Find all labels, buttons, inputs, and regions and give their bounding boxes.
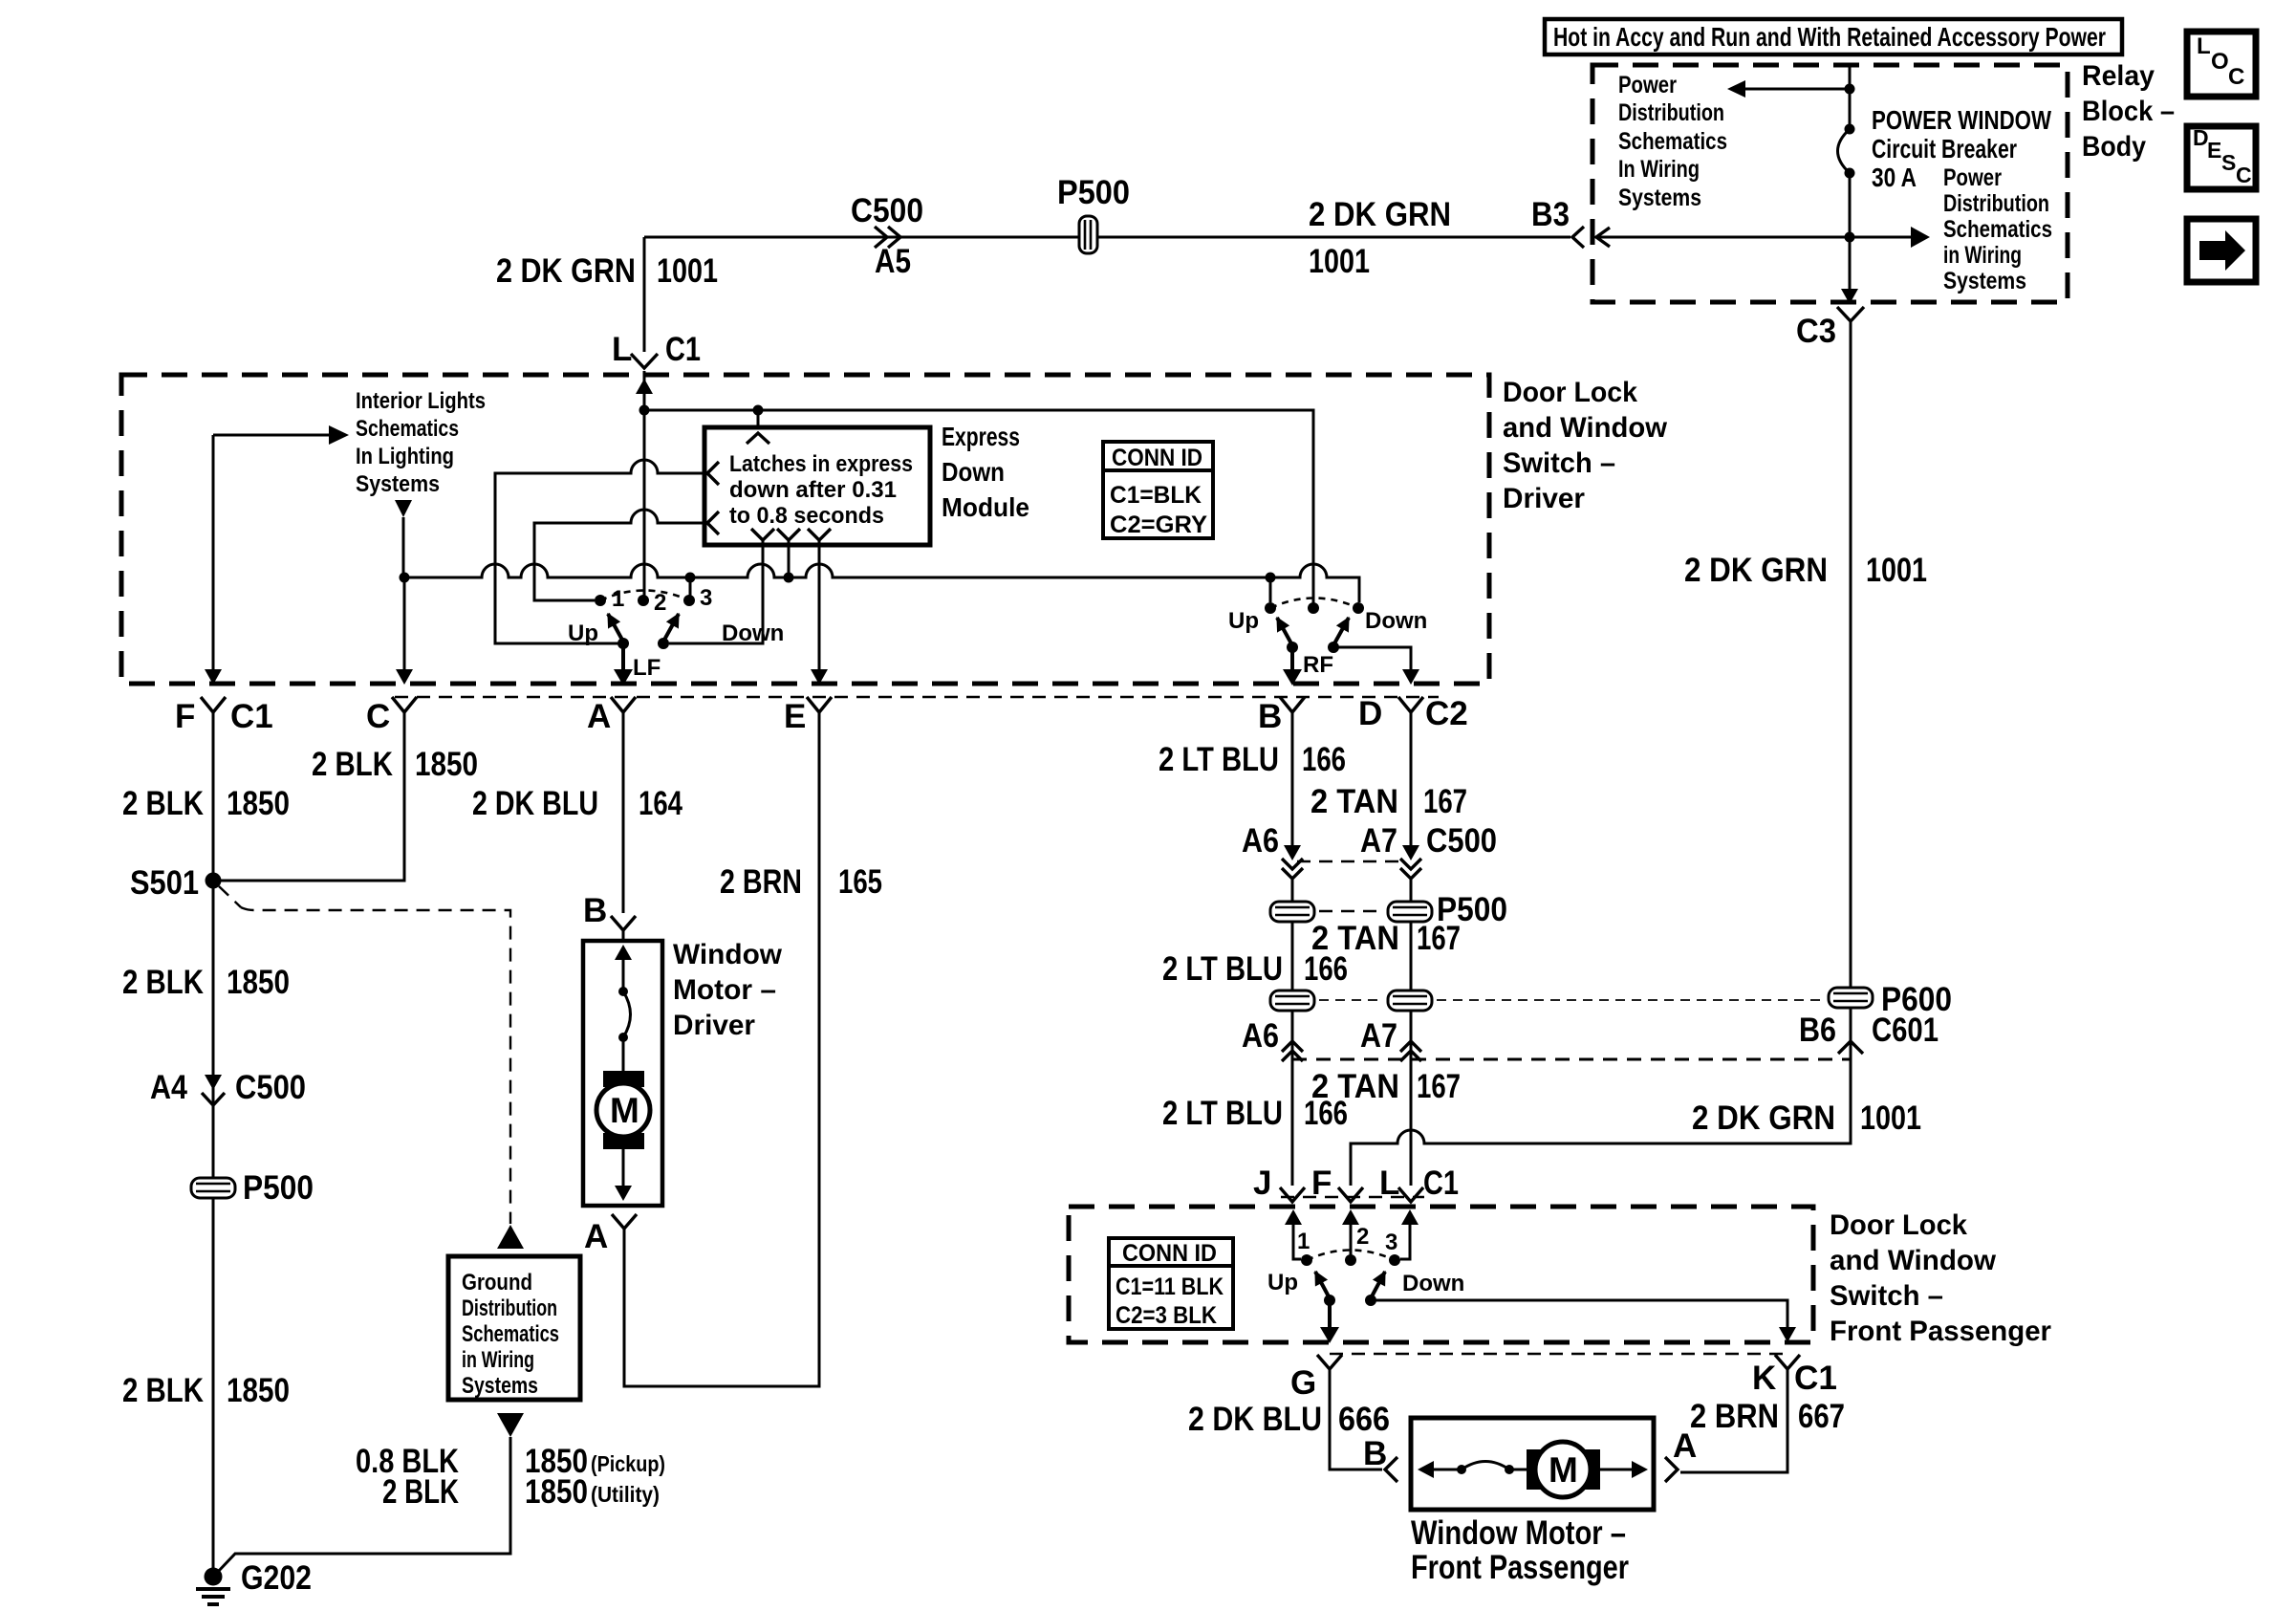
- passenger down actuator arrow: [1371, 1272, 1385, 1298]
- wire: module pin1 down to LF down-pivot: [669, 540, 763, 643]
- svg-text:A5: A5: [875, 243, 911, 280]
- relay block - body dashed box: [1592, 65, 2068, 302]
- passenger up pivot: [1324, 1295, 1335, 1306]
- svg-text:down after 0.31: down after 0.31: [729, 477, 897, 503]
- svg-text:Distribution: Distribution: [1618, 99, 1724, 126]
- C601 connector body dashed line: [1292, 1058, 1851, 1061]
- svg-text:C500: C500: [235, 1069, 306, 1106]
- motor thermal switch arc: [623, 991, 631, 1037]
- wire: up pivot down to G with arrow: [1328, 1300, 1332, 1327]
- svg-text:Distribution: Distribution: [1943, 190, 2049, 217]
- C601 grommet (J line): [1270, 991, 1314, 1011]
- svg-text:LF: LF: [633, 655, 661, 681]
- A6 inline connector arrow+chevrons: [1284, 845, 1301, 860]
- svg-text:2 DK GRN: 2 DK GRN: [1692, 1099, 1835, 1137]
- motor A chevron: [612, 1214, 637, 1229]
- svg-text:Systems: Systems: [356, 471, 440, 497]
- svg-text:L: L: [2197, 33, 2211, 59]
- L chevron (passenger): [1398, 1187, 1423, 1202]
- door lock and window switch - driver dashed box: [121, 375, 1489, 684]
- svg-text:B: B: [1258, 698, 1282, 735]
- CONN ID table (passenger): [1109, 1238, 1233, 1329]
- svg-text:C500: C500: [851, 192, 923, 229]
- svg-text:(Pickup): (Pickup): [591, 1451, 665, 1476]
- svg-text:1850: 1850: [525, 1473, 588, 1511]
- svg-text:In Wiring: In Wiring: [1618, 156, 1700, 183]
- svg-text:1: 1: [1297, 1229, 1310, 1254]
- RF up actuator arrow: [1277, 618, 1292, 645]
- svg-text:Block –: Block –: [2082, 96, 2175, 127]
- dashed branch from S501 to ground distribution: [219, 886, 241, 907]
- svg-text:2: 2: [1356, 1224, 1369, 1250]
- wire: K down and left to motor A: [1680, 1368, 1787, 1472]
- svg-text:in Wiring: in Wiring: [462, 1347, 534, 1373]
- svg-text:2 LT BLU: 2 LT BLU: [1162, 1095, 1283, 1132]
- svg-text:666: 666: [1338, 1401, 1390, 1438]
- LF dashed contact arc: [600, 591, 689, 601]
- P500 grommet on top wire: [1079, 216, 1097, 253]
- F chevron (passenger): [1338, 1187, 1363, 1202]
- svg-text:B: B: [1363, 1435, 1387, 1472]
- wire: module pin2 to LF contact1 (humps over center): [534, 510, 707, 600]
- svg-text:2 DK GRN: 2 DK GRN: [1684, 552, 1828, 589]
- svg-text:Hot in Accy and Run and With R: Hot in Accy and Run and With Retained Ac…: [1553, 22, 2106, 52]
- G chevron: [1317, 1355, 1342, 1369]
- P500 grommet on ground run: [191, 1178, 235, 1198]
- svg-text:2 BRN: 2 BRN: [1690, 1398, 1779, 1435]
- svg-text:Interior Lights: Interior Lights: [356, 388, 486, 414]
- wire: module pin2 down to bus: [788, 540, 791, 577]
- C601 grommet (L line): [1388, 991, 1432, 1011]
- svg-text:B6: B6: [1799, 1012, 1836, 1049]
- svg-text:Systems: Systems: [462, 1373, 538, 1399]
- svg-text:C1: C1: [230, 698, 273, 735]
- svg-text:Relay: Relay: [2082, 60, 2155, 92]
- svg-text:Power: Power: [1618, 72, 1677, 98]
- RF switch center feed contact 2: [1308, 602, 1319, 614]
- svg-text:C: C: [366, 698, 390, 735]
- J chevron: [1280, 1187, 1305, 1202]
- svg-text:2 LT BLU: 2 LT BLU: [1162, 950, 1283, 988]
- svg-text:Driver: Driver: [1503, 483, 1585, 514]
- svg-text:C1: C1: [1794, 1360, 1837, 1397]
- svg-text:and Window: and Window: [1830, 1245, 1997, 1276]
- svg-text:Switch –: Switch –: [1830, 1280, 1943, 1312]
- svg-text:S501: S501: [130, 864, 199, 902]
- B3 chevron: [1572, 227, 1584, 248]
- module top pin chevron: [747, 433, 769, 444]
- node at horizontal bus: [1845, 232, 1855, 243]
- wire: F pin ground run down to G202: [212, 709, 215, 1577]
- CONN ID table (driver): [1103, 442, 1213, 538]
- LF up actuator arrow: [608, 614, 623, 642]
- P600 grommet (right feed): [1829, 988, 1873, 1008]
- wire: E pin down, across, up to motor A: [624, 709, 819, 1386]
- motor A chevron (passenger): [1665, 1457, 1678, 1482]
- wire: B pin down to A6 connector: [1291, 709, 1294, 857]
- passenger pin 2 entry arrow: [1350, 1224, 1353, 1258]
- interior lights feed wire with right arrow: [213, 434, 329, 437]
- svg-text:1001: 1001: [1309, 243, 1370, 280]
- svg-text:F: F: [175, 698, 195, 735]
- svg-text:B3: B3: [1531, 196, 1570, 233]
- A chevron: [611, 697, 636, 712]
- wire: module pin3 down to E pin: [818, 540, 821, 669]
- hot-in-accy banner box: [1545, 19, 2122, 54]
- svg-text:C1=BLK: C1=BLK: [1110, 482, 1202, 509]
- svg-text:Systems: Systems: [1943, 268, 2026, 294]
- wire: node down to C3 with arrow: [1849, 237, 1852, 289]
- svg-text:B: B: [583, 892, 607, 929]
- passenger contact 1: [1301, 1254, 1312, 1266]
- svg-text:Systems: Systems: [1618, 185, 1701, 211]
- ground distribution schematics box: [448, 1256, 580, 1400]
- svg-text:Up: Up: [1267, 1270, 1298, 1295]
- C chevron: [392, 697, 417, 712]
- D chevron: [1398, 697, 1423, 712]
- wire: F pin riser: [212, 435, 215, 669]
- wire: D pin down to A7 connector: [1410, 709, 1413, 857]
- wire to motor M: [622, 1037, 625, 1073]
- RF down pivot: [1328, 642, 1339, 653]
- circuit breaker CB 30A: [1845, 124, 1855, 135]
- passenger contact 3: [1389, 1254, 1400, 1266]
- A7 inline connector arrow+chevrons: [1402, 845, 1419, 860]
- svg-text:Front Passenger: Front Passenger: [1411, 1549, 1629, 1586]
- svg-text:C2: C2: [1425, 695, 1468, 732]
- svg-text:30 A: 30 A: [1872, 163, 1917, 192]
- C500 connector dashed line: [1297, 860, 1405, 862]
- svg-text:L: L: [612, 331, 632, 368]
- svg-text:C601: C601: [1872, 1012, 1939, 1049]
- svg-text:D: D: [1358, 695, 1382, 732]
- P500 grommet (L line): [1388, 902, 1432, 922]
- svg-text:P500: P500: [1057, 174, 1130, 211]
- svg-text:2 BRN: 2 BRN: [720, 863, 802, 901]
- svg-text:1850: 1850: [227, 1372, 290, 1409]
- svg-text:CONN ID: CONN ID: [1112, 445, 1202, 471]
- svg-text:C500: C500: [1426, 822, 1497, 860]
- wire from M with right arrow: [1600, 1469, 1633, 1471]
- svg-text:2 BLK: 2 BLK: [382, 1473, 459, 1511]
- svg-text:1001: 1001: [1866, 552, 1927, 589]
- svg-text:A: A: [584, 1218, 608, 1255]
- wire from M down with arrow: [622, 1146, 625, 1186]
- C3 chevron (male half): [1837, 307, 1864, 321]
- svg-text:Up: Up: [568, 620, 598, 646]
- svg-text:167: 167: [1417, 1068, 1461, 1105]
- node above express module: [753, 405, 764, 416]
- passenger pin 3 entry arrow: [1400, 1224, 1410, 1259]
- svg-text:2 DK BLU: 2 DK BLU: [472, 785, 598, 822]
- svg-text:Latches in express: Latches in express: [729, 451, 913, 477]
- forward arrow legend box: [2187, 219, 2256, 282]
- svg-text:C1: C1: [665, 331, 701, 368]
- svg-text:POWER WINDOW: POWER WINDOW: [1872, 105, 2051, 135]
- wire: C pin down and across to S501: [213, 709, 404, 881]
- svg-text:Module: Module: [942, 492, 1029, 522]
- wire to motor M: [1509, 1469, 1528, 1471]
- B chevron: [1280, 697, 1305, 712]
- wire: C pin riser: [403, 577, 406, 669]
- module left pin 1 chevron: [707, 462, 719, 485]
- svg-text:1850: 1850: [415, 746, 478, 783]
- wire: 2 DK GRN 1001 feed from C3 down to P600: [1850, 321, 1852, 988]
- node: bus left end at C riser: [400, 573, 410, 583]
- thermal contact right: [1505, 1465, 1514, 1474]
- RF up pivot: [1287, 642, 1298, 653]
- wire arrow to power distribution (left): [1745, 88, 1850, 91]
- svg-text:Down: Down: [1402, 1271, 1464, 1296]
- svg-text:RF: RF: [1303, 652, 1333, 678]
- module left pin 2 chevron: [707, 512, 719, 534]
- svg-text:E: E: [2207, 138, 2221, 163]
- passenger down pivot: [1365, 1295, 1376, 1306]
- svg-text:2 BLK: 2 BLK: [122, 785, 204, 822]
- door lock and window switch - front passenger dashed box: [1069, 1207, 1813, 1342]
- dashed grommet tie line to P600: [1319, 999, 1383, 1001]
- svg-text:Down: Down: [1365, 608, 1427, 634]
- C1 connector dashed line (passenger top): [1281, 1196, 1424, 1198]
- svg-text:1850: 1850: [227, 964, 290, 1001]
- wire: ground box down to G202: [217, 1437, 510, 1573]
- svg-text:1: 1: [612, 586, 624, 612]
- svg-text:and Window: and Window: [1503, 412, 1668, 444]
- thermal switch arc: [1462, 1462, 1509, 1470]
- svg-text:Down: Down: [722, 620, 784, 646]
- svg-text:Up: Up: [1228, 608, 1259, 634]
- K chevron: [1775, 1355, 1800, 1369]
- LF switch contact 3: [683, 595, 695, 606]
- arrowhead to power distribution (right): [1911, 227, 1930, 248]
- motor B chevron: [611, 916, 636, 930]
- svg-text:A: A: [587, 698, 611, 735]
- F chevron: [201, 697, 226, 712]
- svg-text:G202: G202: [241, 1559, 312, 1597]
- svg-text:(Utility): (Utility): [591, 1482, 660, 1507]
- svg-text:Express: Express: [942, 422, 1020, 451]
- svg-text:Body: Body: [2082, 131, 2146, 163]
- svg-text:Schematics: Schematics: [1618, 128, 1727, 155]
- wire: L line down to L chevron: [1410, 1011, 1413, 1186]
- P500 grommet (J line): [1270, 902, 1314, 922]
- wire: breaker to bus node: [1849, 173, 1852, 237]
- wire: 2 DK GRN 1001 top feed from switch to B3: [644, 236, 1570, 239]
- svg-text:G: G: [1290, 1364, 1316, 1402]
- svg-text:Schematics: Schematics: [462, 1321, 559, 1347]
- motor M symbol (driver): [603, 1071, 644, 1087]
- wire: A pin down to driver motor B: [622, 709, 625, 913]
- svg-text:in Wiring: in Wiring: [1943, 242, 2022, 269]
- svg-text:Door Lock: Door Lock: [1503, 377, 1637, 408]
- wire: node to B3 (left) with arrowhead: [1596, 236, 1911, 239]
- motor thermal switch lower contact: [618, 1033, 628, 1042]
- svg-text:A6: A6: [1242, 822, 1279, 860]
- svg-text:Down: Down: [942, 457, 1005, 487]
- wire: module pin1 to LF up-path (humps over center): [495, 460, 707, 643]
- svg-text:166: 166: [1304, 950, 1348, 988]
- passenger up actuator arrow: [1315, 1272, 1330, 1298]
- C500 inline connector chevrons on top wire: [875, 227, 887, 248]
- svg-text:2 LT BLU: 2 LT BLU: [1159, 741, 1279, 778]
- svg-text:Window Motor –: Window Motor –: [1411, 1514, 1626, 1552]
- A7 chevrons up (lower): [1400, 1041, 1421, 1052]
- svg-text:Door Lock: Door Lock: [1830, 1209, 1967, 1241]
- A4/C500 inline connector on ground run: [205, 1075, 222, 1090]
- wire: A7 to P500 grommet: [1410, 879, 1413, 990]
- svg-text:166: 166: [1302, 741, 1346, 778]
- svg-text:C: C: [2236, 163, 2252, 187]
- svg-text:2 BLK: 2 BLK: [122, 1372, 204, 1409]
- bus wire across switch with crossover humps: [404, 564, 1270, 577]
- svg-text:3: 3: [1385, 1230, 1397, 1255]
- passenger pin 1 entry arrow: [1293, 1224, 1301, 1259]
- LF down actuator arrow: [663, 614, 679, 642]
- motor internal wire with left arrow: [1433, 1469, 1462, 1471]
- svg-text:2 DK GRN: 2 DK GRN: [1309, 196, 1451, 233]
- LF up pivot: [617, 638, 629, 649]
- passenger dashed contact arc: [1307, 1251, 1395, 1261]
- wire: entry from L/C1 down to contact 2 (arrow up into box): [643, 371, 646, 600]
- svg-text:Circuit Breaker: Circuit Breaker: [1872, 134, 2017, 163]
- wire: down pivot across and down to K: [1371, 1300, 1787, 1327]
- svg-text:2 DK GRN: 2 DK GRN: [496, 252, 636, 290]
- svg-text:2 TAN: 2 TAN: [1310, 783, 1398, 820]
- svg-text:C3: C3: [1796, 313, 1836, 350]
- wire: stub down to LF contact 3: [689, 577, 692, 597]
- svg-text:Front Passenger: Front Passenger: [1830, 1316, 2051, 1347]
- svg-text:C2=3 BLK: C2=3 BLK: [1116, 1302, 1217, 1329]
- motor thermal switch upper contact: [618, 987, 628, 996]
- RF dashed contact arc: [1270, 599, 1358, 609]
- thermal contact left: [1457, 1465, 1466, 1474]
- svg-text:to 0.8 seconds: to 0.8 seconds: [729, 503, 884, 529]
- passenger contact 2: [1345, 1254, 1356, 1266]
- motor internal feed arrow up: [622, 959, 625, 991]
- svg-text:E: E: [784, 698, 806, 735]
- svg-text:Switch –: Switch –: [1503, 447, 1615, 479]
- svg-text:Driver: Driver: [673, 1010, 755, 1041]
- svg-text:A7: A7: [1360, 1017, 1397, 1055]
- svg-text:2 BLK: 2 BLK: [122, 964, 204, 1001]
- ground distribution exit triangle: [497, 1413, 524, 1437]
- svg-text:A4: A4: [150, 1069, 187, 1106]
- svg-text:166: 166: [1304, 1095, 1348, 1132]
- interior lights return triangle: [395, 500, 412, 517]
- L/C1 chevron (female half): [631, 354, 658, 368]
- svg-text:Schematics: Schematics: [356, 416, 459, 442]
- node at y429 feed split: [639, 405, 650, 416]
- wire: feed from box top into breaker: [1849, 65, 1852, 129]
- wire: vertical drop to L/C1: [643, 237, 646, 352]
- svg-text:1001: 1001: [1860, 1099, 1921, 1137]
- wire: J line down to J chevron: [1291, 1011, 1294, 1186]
- svg-text:Motor –: Motor –: [673, 974, 776, 1006]
- node: bus to module pin2: [784, 573, 794, 583]
- motor B chevron (passenger): [1385, 1457, 1397, 1482]
- wire: P600 down, across to F pin (humps over L line): [1351, 1008, 1851, 1186]
- motor M symbol (passenger): [1527, 1449, 1600, 1490]
- svg-text:Schematics: Schematics: [1943, 216, 2052, 243]
- RF contact 3: [1353, 602, 1364, 614]
- svg-text:164: 164: [639, 785, 682, 822]
- E chevron: [807, 697, 832, 712]
- svg-text:165: 165: [838, 863, 882, 901]
- RF down actuator arrow: [1333, 618, 1349, 645]
- LF switch contact 2: [638, 595, 649, 606]
- svg-text:A: A: [1673, 1427, 1697, 1465]
- LF switch contact 1: [595, 595, 606, 606]
- svg-text:167: 167: [1423, 783, 1467, 820]
- svg-text:C1=11 BLK: C1=11 BLK: [1116, 1274, 1224, 1300]
- wire: G down and right to motor B: [1330, 1368, 1382, 1469]
- svg-text:K: K: [1752, 1360, 1776, 1397]
- bus continues with hump over RF center then to contact 3: [1270, 564, 1359, 602]
- node: bus to contact 3 stub of LF: [685, 573, 696, 583]
- node at feed arrow: [1845, 84, 1855, 95]
- wire: RF up pivot down to B pin: [1290, 647, 1294, 669]
- LF down pivot: [658, 638, 669, 649]
- ground distribution entry triangle: [497, 1225, 524, 1249]
- wire: RF down pivot to D pin: [1333, 647, 1411, 669]
- svg-text:M: M: [1549, 1450, 1578, 1490]
- DESC legend box: [2187, 126, 2256, 189]
- svg-text:2 BLK: 2 BLK: [312, 746, 393, 783]
- svg-text:C2=GRY: C2=GRY: [1110, 512, 1207, 538]
- B6 chevron up: [1838, 1041, 1863, 1054]
- window motor - driver box: [583, 941, 662, 1206]
- C1 connector body dashed line: [395, 696, 1439, 698]
- splice S501: [206, 873, 222, 889]
- svg-text:Ground: Ground: [462, 1270, 532, 1295]
- svg-text:Distribution: Distribution: [462, 1295, 557, 1321]
- dashed tie between P500 grommets: [1319, 910, 1383, 912]
- svg-text:Window: Window: [673, 939, 783, 970]
- svg-text:M: M: [610, 1091, 639, 1130]
- svg-text:A7: A7: [1360, 822, 1397, 860]
- wire: triangle down to bus: [402, 517, 405, 577]
- svg-text:C1: C1: [1423, 1165, 1459, 1202]
- svg-text:667: 667: [1798, 1398, 1845, 1435]
- svg-text:1001: 1001: [657, 252, 718, 290]
- svg-text:Power: Power: [1943, 164, 2002, 191]
- svg-text:A6: A6: [1242, 1017, 1279, 1055]
- svg-text:O: O: [2211, 49, 2229, 75]
- window motor - front passenger box: [1411, 1418, 1654, 1510]
- RF contact 1: [1265, 602, 1276, 614]
- svg-text:3: 3: [700, 585, 712, 611]
- A6 chevrons up (lower): [1282, 1041, 1303, 1052]
- wire: feed across to RF switch: [644, 410, 1313, 603]
- svg-text:J: J: [1253, 1165, 1271, 1202]
- wire: stub down to RF contact 1: [1269, 577, 1272, 602]
- svg-text:S: S: [2221, 150, 2236, 175]
- wire: node down into express module: [757, 410, 760, 429]
- svg-text:167: 167: [1417, 920, 1461, 957]
- svg-text:In Lighting: In Lighting: [356, 444, 454, 469]
- wire: A6 to P500 grommet: [1291, 879, 1294, 990]
- svg-text:2 DK BLU: 2 DK BLU: [1188, 1401, 1322, 1438]
- wire: LF pivot down to A pin with arrow: [621, 643, 625, 669]
- LOC legend box: [2187, 32, 2256, 97]
- C1 connector dashed (passenger bottom): [1330, 1353, 1786, 1355]
- wire: chevron to motor box: [622, 929, 625, 943]
- svg-text:C: C: [2228, 64, 2244, 90]
- express down module box: [704, 427, 930, 545]
- svg-text:P500: P500: [243, 1169, 314, 1207]
- svg-text:2: 2: [654, 590, 666, 616]
- node: bus at RF contact1 stub: [1266, 573, 1276, 583]
